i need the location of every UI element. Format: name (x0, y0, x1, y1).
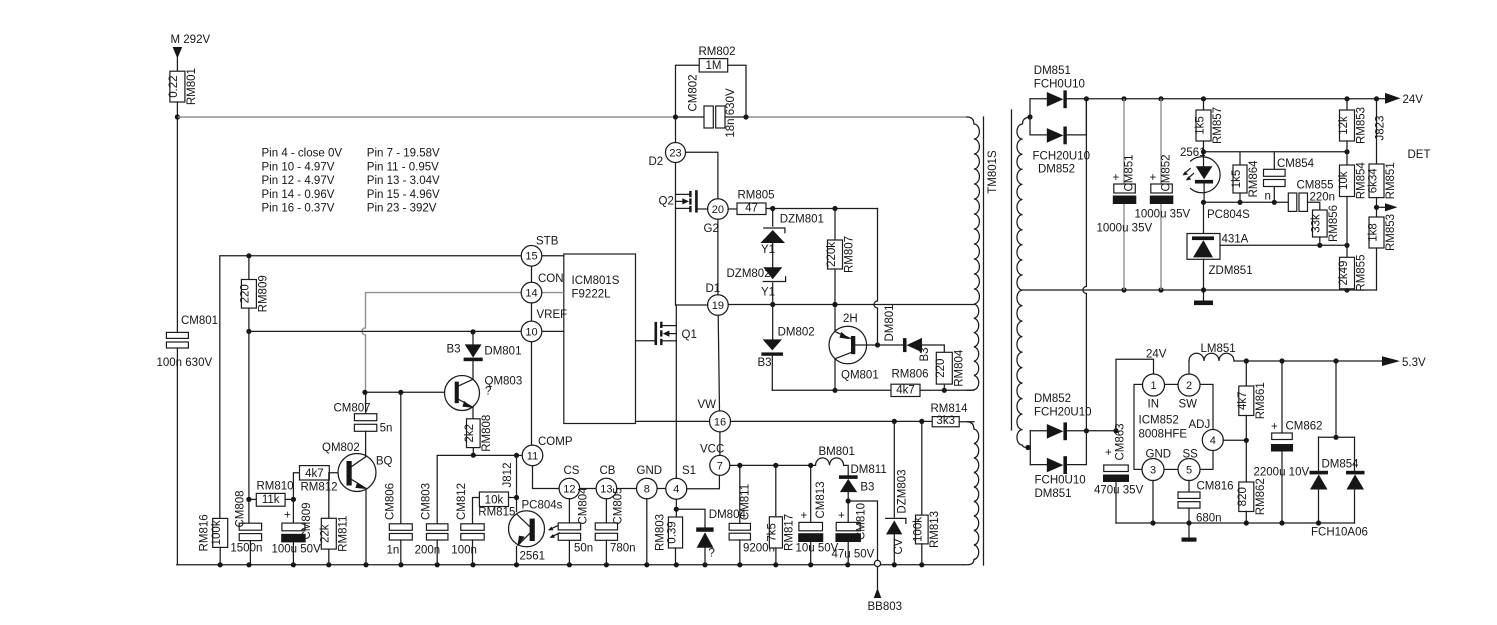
node secondary top terminal (1027, 114, 1032, 119)
svg-text:CM855: CM855 (1297, 180, 1334, 192)
node DZM802 bottom junction (770, 302, 775, 307)
resistor RM801 0.22 (168, 68, 198, 105)
svg-text:1500n: 1500n (230, 543, 262, 555)
wire ADJ to divider (1223, 439, 1246, 441)
transformer core lines (984, 110, 1012, 565)
node QM801 base junction (875, 342, 880, 347)
node CM862 tap (1279, 358, 1284, 363)
svg-text:DM851: DM851 (1035, 488, 1072, 500)
svg-text:15: 15 (525, 251, 537, 263)
resistor RM815 10k (473, 492, 517, 524)
svg-text:TM801S: TM801S (987, 150, 999, 194)
pin 14 CON (521, 273, 563, 303)
svg-text:CM811: CM811 (739, 484, 751, 520)
svg-text:10: 10 (525, 326, 537, 338)
svg-text:DM851: DM851 (1034, 65, 1071, 77)
wire main drain vertical Q2 (675, 163, 677, 306)
svg-text:RM802: RM802 (699, 46, 736, 58)
wire VCC rail (730, 464, 816, 466)
svg-text:0.39: 0.39 (666, 521, 678, 543)
node RM802 right bus junction (743, 114, 748, 119)
optocoupler PC804s phototransistor 2561 (509, 500, 563, 563)
svg-text:13: 13 (600, 483, 612, 495)
pin 1 IN (1143, 374, 1165, 411)
svg-text:DM852: DM852 (1034, 393, 1071, 405)
svg-text:CB: CB (600, 465, 616, 477)
svg-text:1000u 35V: 1000u 35V (1097, 223, 1153, 235)
svg-text:10u 50V: 10u 50V (796, 543, 839, 555)
node CON/CM807/QM803-base junction (362, 390, 367, 395)
node junction B+ bus left (175, 114, 180, 119)
svg-text:1n: 1n (387, 545, 400, 557)
svg-text:FCH10A06: FCH10A06 (1311, 527, 1368, 539)
node RM804 bottom junction (942, 388, 947, 393)
wire pin4 S1 down (675, 499, 677, 517)
svg-text:CM801: CM801 (181, 315, 218, 327)
svg-text:B3: B3 (447, 344, 461, 356)
svg-text:CON: CON (538, 273, 564, 285)
svg-text:PC804s: PC804s (522, 500, 563, 512)
svg-text:100k: 100k (211, 520, 223, 545)
node S1/DM804 junction (674, 507, 679, 512)
wire 5.3V rail (1234, 360, 1382, 362)
wire pin19 to pin20 link (717, 219, 719, 294)
svg-text:+: + (1113, 172, 1120, 184)
wire J812 vertical (516, 455, 518, 511)
resistor RM853b 1k8 (1367, 214, 1397, 290)
svg-text:RM861: RM861 (1255, 382, 1267, 419)
svg-text:F9222L: F9222L (572, 289, 612, 301)
svg-text:431A: 431A (1222, 234, 1249, 246)
pin 5 SS (1178, 449, 1200, 481)
svg-text:Pin 10 - 4.97V: Pin 10 - 4.97V (262, 161, 335, 173)
svg-text:RM862: RM862 (1255, 478, 1267, 515)
wire regulator ground bus (1116, 522, 1355, 524)
node RM864 bottom junction (1237, 200, 1242, 205)
wire VW pin16 to RM814 (731, 420, 933, 422)
resistor RM813 100k (913, 421, 942, 564)
svg-text:RM856: RM856 (1328, 205, 1340, 242)
resistor RM814 3k3 (931, 403, 974, 427)
svg-text:PC804S: PC804S (1207, 209, 1250, 221)
svg-text:DZM803: DZM803 (896, 469, 908, 513)
resistor RM802 1M (676, 46, 747, 117)
resistor RM851 6k34 (1367, 162, 1397, 217)
node DM854 tap (1333, 358, 1338, 363)
svg-text:4: 4 (1210, 435, 1216, 447)
svg-text:RM804: RM804 (953, 349, 965, 387)
node CM811 tap (737, 463, 742, 468)
wire VREF junction down to CM808 (248, 331, 250, 523)
wire CON pin14 net (gray) with hop (362, 293, 521, 393)
diode DM851 FCH0U10 (lower pair bottom) (1030, 431, 1086, 500)
svg-text:ADJ: ADJ (1189, 419, 1211, 431)
note pin voltage table (262, 148, 441, 215)
svg-text:DM802: DM802 (778, 327, 815, 339)
svg-text:7: 7 (717, 460, 723, 472)
svg-text:23: 23 (669, 147, 681, 159)
node 24V output arrow (1385, 93, 1423, 106)
wire top bus right (gray) (746, 116, 967, 118)
svg-text:2k49: 2k49 (1338, 261, 1350, 286)
svg-text:RM803: RM803 (654, 514, 666, 551)
pin 12 CS (559, 465, 580, 499)
svg-text:DM801: DM801 (484, 346, 521, 358)
capacitor CM863 470u 35V (1094, 423, 1144, 523)
capacitor CM810 47u 50V (832, 503, 875, 565)
svg-text:ICM852: ICM852 (1139, 415, 1179, 427)
resistor RM810 11k (249, 481, 294, 507)
transformer TM801S primary winding lower (aux) (963, 422, 979, 565)
svg-text:2561: 2561 (520, 551, 546, 563)
wire main vertical Q1 to S1 (675, 305, 677, 478)
capacitor CM804 50n (558, 487, 593, 565)
capacitor CM851 1000u 35V (1097, 99, 1153, 290)
capacitor CM805 780n (595, 487, 635, 564)
svg-text:J812: J812 (502, 463, 514, 488)
capacitor CM813 10u 50V (796, 465, 839, 564)
wire secondary ground rail (1023, 289, 1377, 291)
node RM807 bottom junction (832, 302, 837, 307)
node DZM801 top junction (770, 206, 775, 211)
svg-text:100u 50V: 100u 50V (272, 544, 322, 556)
node CM854 top junction (1344, 149, 1349, 154)
node ADJ junction (1244, 438, 1249, 443)
svg-text:3k3: 3k3 (936, 415, 955, 427)
pin 3 GND (1142, 449, 1171, 481)
svg-text:Pin 7 - 19.58V: Pin 7 - 19.58V (367, 148, 440, 160)
wire IC box to pin16 (636, 420, 710, 422)
pin 4 ADJ (1189, 419, 1224, 451)
svg-text:220: 220 (935, 359, 947, 378)
svg-text:B3: B3 (860, 482, 874, 494)
capacitor CM807 5n (334, 392, 393, 456)
resistor RM864 1k5 (1204, 152, 1261, 203)
wire LED cathode rail to CM855 (1204, 201, 1289, 203)
svg-text:DET: DET (1408, 149, 1431, 161)
svg-text:16: 16 (714, 416, 726, 428)
wire VREF pin10 horizontal (249, 330, 521, 332)
svg-text:CM802: CM802 (687, 74, 699, 111)
wire pin3 GND to bus (1152, 481, 1154, 524)
node QM801 emitter top junction (832, 302, 837, 307)
diode DM801 B3 (near QM801) (855, 304, 944, 361)
svg-text:DM811: DM811 (851, 464, 887, 476)
pin 7 VCC (700, 444, 730, 476)
svg-text:RM811: RM811 (337, 516, 349, 552)
wire pin chain left side (531, 266, 533, 445)
svg-text:RM855: RM855 (1356, 255, 1368, 292)
svg-text:RM851: RM851 (1385, 162, 1397, 199)
wire clamp vertical with hop (874, 209, 878, 346)
svg-text:1k8: 1k8 (1367, 223, 1379, 242)
svg-text:G2: G2 (704, 223, 719, 235)
svg-text:CM805: CM805 (612, 487, 624, 524)
svg-text:3: 3 (1150, 464, 1156, 476)
transistor Q2 MOSFET (659, 190, 708, 212)
node RM857 tap (1201, 96, 1206, 101)
node 11k/4k7/CM809 junction (291, 497, 296, 502)
resistor RM856 33k (1311, 205, 1341, 245)
svg-text:CM808: CM808 (235, 490, 247, 527)
svg-text:4k7: 4k7 (896, 385, 915, 397)
svg-text:CM852: CM852 (1161, 154, 1173, 191)
node DM854 bracket junction (1333, 435, 1338, 440)
svg-text:8: 8 (644, 483, 650, 495)
svg-text:220: 220 (240, 284, 252, 303)
capacitor CM806 1n (384, 392, 412, 565)
node CM851 tap (1121, 96, 1126, 101)
node DZM803 top junction (892, 419, 897, 424)
svg-text:0.22: 0.22 (168, 75, 180, 97)
svg-text:12k: 12k (1338, 116, 1350, 135)
node RM809 top junction (246, 253, 251, 258)
wire pin14 lead to IC (gray) (542, 292, 564, 294)
svg-text:18n 630V: 18n 630V (725, 88, 737, 138)
svg-text:J823: J823 (1375, 116, 1387, 141)
svg-text:VREF: VREF (537, 309, 568, 321)
svg-text:RM805: RM805 (738, 190, 775, 202)
svg-text:5: 5 (1186, 464, 1192, 476)
capacitor CM803 200n (415, 483, 448, 565)
resistor RM811 22k (320, 473, 350, 565)
wire RM801 to top bus (176, 102, 178, 117)
svg-text:ICM801S: ICM801S (572, 275, 620, 287)
svg-text:+: + (801, 510, 808, 522)
svg-text:LM851: LM851 (1201, 343, 1236, 355)
node D2 bus junction (673, 114, 678, 119)
ground symbol regulator section (1182, 523, 1197, 542)
svg-text:780n: 780n (610, 543, 636, 555)
wire J823 connector branch (1375, 99, 1387, 164)
svg-text:CM813: CM813 (815, 481, 827, 518)
resistor RM817 7k5 (767, 465, 796, 564)
svg-text:1k5: 1k5 (1194, 116, 1206, 135)
node CM851 gnd tap (1121, 287, 1126, 292)
svg-text:Pin 4 - close 0V: Pin 4 - close 0V (262, 148, 343, 160)
diode DZM801 zener Y1 (760, 209, 824, 268)
svg-text:8008HFE: 8008HFE (1139, 429, 1188, 441)
node J823 tap (1374, 96, 1379, 101)
node lower rectifier output junction (1084, 428, 1089, 433)
inductor BM801 (816, 446, 855, 475)
resistor RM862 820 (1237, 478, 1267, 523)
node 10k junction (514, 495, 519, 500)
svg-text:BM801: BM801 (819, 446, 855, 458)
wire pin15 lead to IC (542, 255, 564, 257)
svg-text:RM817: RM817 (783, 514, 795, 551)
svg-text:CM862: CM862 (1286, 421, 1323, 433)
node RM817 tap (773, 463, 778, 468)
capacitor CM809 100u 50V (272, 499, 322, 564)
capacitor CM811 9200n (729, 465, 775, 564)
svg-text:47: 47 (745, 203, 758, 215)
node 5.3V output arrow (1382, 356, 1426, 369)
svg-text:CM863: CM863 (1115, 423, 1127, 460)
pin 4 S1 (666, 465, 696, 499)
svg-text:ZDM851: ZDM851 (1209, 265, 1253, 277)
wire pin10 lead to IC (542, 330, 564, 332)
op-amp U1 ICM801S F9222L control IC box (564, 254, 636, 424)
diode pair DM854 FCH10A06 (1310, 361, 1368, 539)
svg-text:M 292V: M 292V (171, 34, 211, 46)
svg-text:CS: CS (564, 465, 580, 477)
svg-text:Pin 23 - 392V: Pin 23 - 392V (367, 203, 437, 215)
transformer TM801S secondary winding (1017, 117, 1030, 448)
svg-text:FCH0U10: FCH0U10 (1035, 475, 1086, 487)
diode DM852 FCH20U10 (top) (1030, 99, 1090, 176)
svg-text:+: + (1150, 172, 1157, 184)
resistor RM857 1k5 (1194, 99, 1224, 167)
node RM861 tap (1244, 358, 1249, 363)
svg-text:B3: B3 (919, 347, 931, 361)
node CM813 tap (808, 463, 813, 468)
svg-text:CM807: CM807 (334, 403, 371, 415)
svg-text:RM812: RM812 (301, 482, 338, 494)
svg-text:QM802: QM802 (322, 442, 360, 454)
svg-text:24V: 24V (1146, 349, 1167, 361)
op-amp U2 ICM852 8008HFE regulator box (1134, 384, 1213, 469)
svg-text:VCC: VCC (700, 444, 724, 456)
svg-text:DM852: DM852 (1038, 164, 1075, 176)
diode DZM803 zener CV (886, 421, 909, 564)
transformer TM801S primary winding upper (967, 117, 979, 390)
wire pin23 to bus (675, 117, 677, 143)
transistor QM801 2H (829, 305, 879, 391)
pin 2 SW (1178, 374, 1200, 411)
svg-text:4: 4 (673, 484, 679, 496)
node DM811 anode junction (846, 498, 851, 503)
node DET output arrow (1377, 149, 1431, 211)
svg-text:BQ: BQ (376, 456, 393, 468)
svg-text:2H: 2H (843, 313, 858, 325)
diode DZM802 zener Y1 (727, 267, 786, 304)
wire chain pins 12-13-8-4 (580, 488, 666, 490)
node 2k49 gnd tap (1344, 287, 1349, 292)
svg-text:SW: SW (1179, 399, 1198, 411)
diode DM802 B3 (758, 305, 815, 391)
resistor RM816 100k (199, 514, 228, 564)
svg-text:n: n (1265, 191, 1271, 203)
capacitor CM854 (1240, 152, 1347, 203)
node 11k tap junction (246, 497, 251, 502)
resistor RM806 4k7 (772, 369, 974, 397)
svg-text:5.3V: 5.3V (1402, 357, 1426, 369)
capacitor CM855 220n (1288, 180, 1335, 212)
svg-text:100n: 100n (451, 545, 477, 557)
svg-text:RM806: RM806 (892, 369, 929, 381)
capacitor CM812 100n (451, 483, 484, 565)
svg-text:2: 2 (1186, 380, 1192, 392)
svg-text:FCH20U10: FCH20U10 (1034, 407, 1092, 419)
ground symbol 24V section (1194, 290, 1213, 305)
resistor RM809 220 (240, 256, 270, 332)
svg-text:CV: CV (893, 538, 905, 554)
svg-text:COMP: COMP (538, 436, 573, 448)
svg-text:IN: IN (1148, 399, 1160, 411)
resistor RM807 220k (826, 209, 856, 305)
inductor LM851 (1189, 343, 1236, 374)
svg-text:RM853: RM853 (1385, 214, 1397, 251)
node bus junctions (218, 562, 925, 567)
svg-text:CM809: CM809 (301, 502, 313, 539)
resistor RM853 12k (1338, 99, 1368, 144)
svg-text:11: 11 (527, 450, 538, 462)
svg-text:FCH0U10: FCH0U10 (1034, 79, 1085, 91)
svg-text:470u 35V: 470u 35V (1094, 485, 1144, 497)
pin 23 D2 (649, 143, 686, 169)
svg-text:S1: S1 (682, 465, 696, 477)
node VREF wire to DM801 junction (470, 329, 475, 334)
svg-text:+: + (838, 510, 845, 522)
svg-text:820: 820 (1237, 487, 1249, 506)
svg-text:+: + (284, 510, 291, 522)
wire G2 clamp rail (766, 208, 878, 210)
node DET junction (1374, 205, 1379, 210)
node BB803 takeoff wire (848, 501, 902, 613)
svg-text:VW: VW (698, 399, 717, 411)
svg-text:10k: 10k (1338, 171, 1350, 190)
wire pin7 to pin16 link (719, 432, 721, 455)
capacitor CM816 680n (1178, 481, 1234, 525)
svg-text:RM808: RM808 (481, 415, 493, 452)
svg-text:DM801: DM801 (884, 304, 896, 341)
resistor RM812 4k7 (293, 466, 346, 500)
svg-text:RM853: RM853 (1356, 107, 1368, 144)
wire rectifier join vertical with hop (1083, 99, 1086, 431)
wire pin16 to pin19 link (718, 315, 719, 411)
svg-text:1: 1 (1150, 380, 1156, 392)
diode DM852 FCH20U10 (lower pair top) (1030, 393, 1091, 440)
svg-text:STB: STB (536, 236, 559, 248)
wire Q1 drain corner to pin19 (676, 304, 707, 306)
svg-text:DZM802: DZM802 (727, 268, 771, 280)
svg-text:4k7: 4k7 (305, 468, 324, 480)
svg-text:RM810: RM810 (257, 481, 294, 493)
node QM801 collector bottom junction (832, 388, 837, 393)
svg-text:CM810: CM810 (855, 503, 867, 540)
diode DM801 B3 (near QM803) (447, 332, 522, 361)
node RM864 rail junction (1201, 149, 1206, 154)
svg-text:Q1: Q1 (682, 329, 697, 341)
pin 16 VW (698, 399, 731, 432)
node LED cathode junction (1201, 200, 1206, 205)
svg-text:CM804: CM804 (577, 487, 589, 525)
node 2k2/COMP junction (471, 453, 476, 458)
node RM809/VREF junction (246, 329, 251, 334)
svg-text:RM801: RM801 (186, 68, 198, 105)
resistor RM805 47 (728, 190, 774, 215)
svg-text:Pin 15 - 4.96V: Pin 15 - 4.96V (367, 189, 440, 201)
svg-text:100k: 100k (913, 517, 925, 542)
capacitor CM802 18n 630V (676, 74, 747, 137)
svg-text:50n: 50n (574, 543, 593, 555)
wire ZDM851 ref rail (1220, 244, 1347, 246)
svg-text:QM801: QM801 (841, 370, 879, 382)
wire 24V rail (1086, 98, 1385, 100)
svg-text:RM809: RM809 (257, 275, 269, 312)
svg-text:BB803: BB803 (868, 601, 903, 613)
wire M292V to RM801 (176, 58, 178, 71)
wire pin4 to pin7 link (687, 475, 720, 488)
svg-text:7k5: 7k5 (767, 523, 779, 542)
resistor RM804 220 (935, 349, 965, 390)
svg-text:1M: 1M (705, 60, 721, 72)
node RM813 top junction (919, 419, 924, 424)
svg-text:CM816: CM816 (1197, 481, 1234, 493)
wire 24V feed to IN pin (1116, 349, 1167, 431)
wire bottom ground bus (177, 564, 963, 566)
